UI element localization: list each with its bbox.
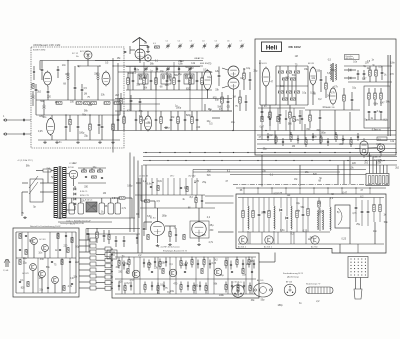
wire riser to tone box xyxy=(262,155,350,187)
svg-text:B 30 C5: B 30 C5 xyxy=(80,191,88,193)
wire supply bus xyxy=(113,130,396,132)
capacitor C185 xyxy=(231,271,233,272)
capacitor C26 xyxy=(130,95,133,111)
resistor R70 xyxy=(325,76,328,98)
label NF caption xyxy=(158,247,180,249)
capacitor C164 xyxy=(151,282,153,291)
svg-text:6,8n: 6,8n xyxy=(280,230,285,232)
capacitor C187 xyxy=(251,271,253,272)
svg-text:25µ: 25µ xyxy=(210,225,215,227)
resistor R2 xyxy=(76,102,82,105)
capacitor C51 xyxy=(249,72,252,90)
resistor R163 xyxy=(144,282,146,293)
svg-text:0,47: 0,47 xyxy=(260,127,265,129)
diode D91 xyxy=(286,198,288,233)
resistor R150 xyxy=(191,257,193,268)
antenna input terminals xyxy=(3,115,31,135)
capacitor C123 xyxy=(19,281,21,282)
resistor R93 xyxy=(296,198,298,233)
label Ratiofilter framed xyxy=(345,55,360,61)
svg-text:C7: C7 xyxy=(240,41,242,43)
resistor R62 xyxy=(294,71,299,73)
wire NF rails xyxy=(135,183,215,208)
wire socket leads xyxy=(370,153,388,174)
tube V12 EF89 xyxy=(308,63,317,105)
resistor R152 xyxy=(203,257,205,268)
capacitor C71 xyxy=(180,187,182,188)
resistor R140 xyxy=(118,258,120,269)
svg-text:AC 760: AC 760 xyxy=(311,246,317,249)
ground xyxy=(55,141,59,144)
svg-text:0,25: 0,25 xyxy=(342,239,347,241)
resistor R94 xyxy=(307,198,309,233)
transistor Q5 xyxy=(52,277,59,284)
capacitor C155 xyxy=(230,261,232,270)
svg-text:10µ: 10µ xyxy=(231,122,236,124)
svg-text:800/875 MHz: 800/875 MHz xyxy=(33,50,45,52)
resistor R8 at antenna xyxy=(153,43,160,48)
svg-text:Fernbedienung B 74: Fernbedienung B 74 xyxy=(283,272,304,275)
value labels xyxy=(262,171,323,183)
resistor R201 xyxy=(275,135,277,145)
svg-text:10µ: 10µ xyxy=(23,258,28,260)
svg-text:0,47: 0,47 xyxy=(343,193,348,195)
AM receiver enclosure box xyxy=(255,39,396,155)
wire strip links xyxy=(79,240,113,288)
junction dots xyxy=(65,60,195,183)
transistor case outline AF drawing xyxy=(231,282,244,298)
resistor R211 xyxy=(350,137,352,147)
resistor R86 xyxy=(169,226,171,242)
electrolytic capacitor can E1 xyxy=(69,198,75,214)
resistor R92 xyxy=(268,198,270,233)
svg-text:C4: C4 xyxy=(202,41,204,43)
remote receiver enclosure box xyxy=(112,250,259,299)
svg-text:180p: 180p xyxy=(79,132,85,134)
svg-text:180p: 180p xyxy=(176,107,182,109)
capacitor C50d xyxy=(245,95,248,111)
wire riser xyxy=(137,161,139,254)
resistor R205 xyxy=(305,137,307,147)
ground xyxy=(76,141,80,144)
resistor R144 xyxy=(148,260,150,271)
wire supply bus xyxy=(257,148,396,150)
svg-text:• F (2,2/4b 2TC): • F (2,2/4b 2TC) xyxy=(17,160,33,162)
capacitor C30 xyxy=(117,111,120,131)
IF transformer box F3 xyxy=(184,74,194,84)
resistor R20 xyxy=(201,72,204,90)
svg-text:AM Filter II: AM Filter II xyxy=(346,57,355,60)
wire riser xyxy=(129,153,131,233)
wire feed from right xyxy=(193,170,366,179)
resistor R99 xyxy=(373,198,375,223)
svg-text:AC 301 k: AC 301 k xyxy=(264,246,272,249)
rear connector socket block xyxy=(366,174,389,186)
value labels xyxy=(259,129,395,150)
svg-text:6,8n: 6,8n xyxy=(158,181,163,183)
mains switch S1 xyxy=(22,176,48,202)
diode D4 xyxy=(74,193,76,195)
resistor R142 xyxy=(128,257,130,268)
capacitor C23 xyxy=(150,72,153,90)
trimmer capacitor CT7 xyxy=(240,41,245,49)
value labels xyxy=(127,97,235,129)
svg-text:C5: C5 xyxy=(215,41,217,43)
capacitor C3 xyxy=(65,115,68,140)
capacitor C131 xyxy=(115,236,118,247)
wire xyxy=(115,99,232,105)
resistor R172 xyxy=(225,282,227,293)
capacitor C8 at antenna xyxy=(140,43,150,53)
resistor R25 xyxy=(120,93,122,111)
capacitor C145 xyxy=(154,258,156,267)
svg-text:10µ: 10µ xyxy=(160,285,165,287)
svg-text:10µ: 10µ xyxy=(207,121,212,123)
capacitor C135 xyxy=(103,230,106,242)
wire vertical feed xyxy=(113,58,118,153)
capacitor C66 xyxy=(261,105,264,120)
capacitor C218 xyxy=(327,138,329,146)
capacitor C153 xyxy=(209,260,211,269)
capacitor C122 xyxy=(69,261,71,262)
wire AM grid rails xyxy=(276,66,308,105)
wire box F to tone box link xyxy=(259,253,275,263)
wire lower links xyxy=(205,196,234,232)
resistor R77 xyxy=(269,105,272,126)
resistor R3 xyxy=(84,102,90,105)
resistor R75 xyxy=(380,88,383,106)
capacitor C4 xyxy=(77,115,80,140)
resistor R82 xyxy=(186,186,188,191)
resistor R35 xyxy=(160,111,163,131)
resistor R87 xyxy=(183,234,185,239)
IF transformer box F1 xyxy=(138,74,148,84)
value labels xyxy=(147,215,214,244)
chassis boundary dash-dot line xyxy=(233,184,388,186)
resistor R1 xyxy=(56,102,62,105)
capacitor C29 xyxy=(196,72,199,90)
wire xyxy=(355,147,377,150)
wire box F verticals xyxy=(122,257,252,294)
svg-text:0,25: 0,25 xyxy=(184,187,189,189)
wire xyxy=(131,198,133,218)
diode D5 xyxy=(74,198,76,200)
tube V11 ECH81 xyxy=(259,63,270,105)
transistor Q1 GC301 xyxy=(31,238,46,245)
svg-text:6,8n: 6,8n xyxy=(167,77,172,79)
svg-text:10µ: 10µ xyxy=(93,167,98,169)
remote microphone grille xyxy=(348,257,368,278)
svg-text:DR J: DR J xyxy=(170,176,174,178)
resistor R146 xyxy=(159,259,161,270)
capacitor C72 xyxy=(201,195,203,208)
capacitor C87 xyxy=(367,200,370,226)
wire top small row rail xyxy=(126,66,200,68)
wire IF row1 top rail xyxy=(118,71,212,73)
label above xyxy=(60,222,84,225)
resistor R50 xyxy=(221,92,224,111)
capacitor C151 xyxy=(197,260,199,269)
svg-text:1M: 1M xyxy=(294,179,297,181)
capacitor C82 xyxy=(302,198,305,233)
resistor R80 xyxy=(114,197,132,199)
svg-text:1M: 1M xyxy=(84,93,87,95)
svg-text:0,25: 0,25 xyxy=(278,193,283,195)
wire IF row1 bottom rail xyxy=(126,89,212,91)
value labels xyxy=(251,300,320,307)
transistor Q91 xyxy=(264,236,273,249)
resistor R154 xyxy=(225,258,227,269)
resistor R148 xyxy=(180,258,182,269)
resistor R98 xyxy=(318,198,320,211)
trimmer capacitor CT1 xyxy=(166,41,171,49)
label under indicators xyxy=(374,156,383,162)
svg-text:10µ: 10µ xyxy=(262,171,267,173)
svg-text:Skalenlampe 7 V: Skalenlampe 7 V xyxy=(306,284,321,286)
trimmer CT13 xyxy=(166,67,170,72)
wire xyxy=(260,60,360,110)
capacitor C149 xyxy=(185,261,187,270)
small framed label xyxy=(377,137,387,141)
resistor R184 xyxy=(201,268,203,273)
capacitor C32 xyxy=(135,111,138,131)
diode D6 xyxy=(74,203,76,205)
capacitor C115 xyxy=(19,249,21,250)
capacitor C73 xyxy=(143,222,145,236)
value labels xyxy=(240,190,389,241)
value labels xyxy=(141,106,212,129)
capacitor C60 xyxy=(320,70,323,92)
capacitor C162 xyxy=(130,282,132,291)
svg-text:6,8n: 6,8n xyxy=(372,129,377,131)
capacitor C166 xyxy=(163,282,165,291)
tone control enclosure box xyxy=(236,194,386,253)
capacitor C168 xyxy=(187,282,189,291)
svg-text:180p: 180p xyxy=(234,294,240,296)
svg-text:EABC 80: EABC 80 xyxy=(374,156,381,159)
antenna ANT1 xyxy=(133,38,147,61)
svg-text:6,8n: 6,8n xyxy=(327,73,332,75)
wire xyxy=(66,186,75,210)
tube V15 indicator circle xyxy=(377,144,385,156)
trimmer CT15 xyxy=(188,67,192,72)
capacitor C63 xyxy=(381,66,384,80)
capacitor C34 xyxy=(155,111,158,131)
capacitor C2b xyxy=(81,84,84,100)
resistor R72 xyxy=(375,66,378,82)
resistor R85 xyxy=(147,234,149,239)
capacitor C200 xyxy=(41,61,44,81)
capacitor C68 xyxy=(299,110,302,124)
capacitor C120 xyxy=(51,261,53,262)
ground xyxy=(43,141,47,144)
capacitor C173 xyxy=(231,282,233,291)
svg-text:6,8n: 6,8n xyxy=(147,183,152,185)
svg-text:180p: 180p xyxy=(321,133,327,135)
wire xyxy=(36,100,120,115)
wire main bus xyxy=(143,156,397,158)
resistor R182 xyxy=(162,268,164,273)
resistor R176 xyxy=(249,283,251,294)
capacitor C85 xyxy=(355,198,358,223)
svg-text:25µ: 25µ xyxy=(202,182,207,184)
wire xyxy=(340,222,375,253)
output transformer TR2 xyxy=(318,208,324,231)
capacitor C81 xyxy=(263,198,266,233)
capacitor C2 xyxy=(74,66,77,100)
capacitor C141 xyxy=(123,261,125,270)
AM IF filter transformer xyxy=(331,63,337,82)
capacitor C1 xyxy=(57,66,60,78)
tube V16 EZ80 rectifier xyxy=(66,163,78,186)
resistor R186 xyxy=(242,268,244,273)
svg-text:B 16 C5: B 16 C5 xyxy=(85,200,93,202)
svg-text:0,25: 0,25 xyxy=(212,263,217,265)
transistor Q3 GC678 xyxy=(22,264,36,275)
resistor R37 xyxy=(177,111,180,131)
fuse F1 xyxy=(36,169,54,172)
resistor R4 xyxy=(91,102,97,105)
wire supply bus xyxy=(257,134,396,136)
capacitor C175 xyxy=(243,282,245,291)
svg-text:1. und NF-Teil (Chassis): 1. und NF-Teil (Chassis) xyxy=(158,247,180,249)
wire xyxy=(113,65,203,67)
capacitor C14 xyxy=(178,67,180,73)
svg-text:10µ: 10µ xyxy=(160,71,165,73)
svg-text:0,25: 0,25 xyxy=(261,212,266,214)
capacitor C36 xyxy=(170,111,173,131)
transistor Q8 xyxy=(214,268,222,276)
capacitor C113 xyxy=(65,235,67,236)
resistor R207 xyxy=(320,135,322,145)
svg-text:Heli: Heli xyxy=(266,44,278,51)
svg-text:10µ: 10µ xyxy=(302,92,307,94)
wire xyxy=(16,232,76,293)
svg-text:100k: 100k xyxy=(376,163,382,165)
capacitor C220 xyxy=(342,136,344,144)
svg-text:1M: 1M xyxy=(190,68,193,70)
coil L3 xyxy=(43,100,45,115)
transistor case outline drawing small xyxy=(284,281,296,296)
svg-text:1M: 1M xyxy=(103,193,106,195)
tube V9 ECC85 section (lower circle) xyxy=(228,78,239,89)
wire xyxy=(262,110,350,144)
resistor R203 xyxy=(290,132,292,142)
svg-text:25µ: 25µ xyxy=(23,263,28,265)
resistor R5 xyxy=(104,102,110,105)
electrolytic capacitor can E0 xyxy=(61,198,67,214)
capacitor C65 xyxy=(351,92,354,110)
wire xyxy=(344,66,392,82)
resistor R174 xyxy=(237,283,239,294)
svg-text:1M: 1M xyxy=(233,97,236,99)
resistor R90 xyxy=(242,198,244,233)
power transformer TR1 xyxy=(54,166,66,219)
tube V5 mixer (circle) xyxy=(135,49,145,59)
Heli logo xyxy=(262,42,282,52)
tube V14 EM84 (tuning indicator pill) xyxy=(360,138,368,158)
svg-text:10µ: 10µ xyxy=(296,203,301,205)
tube V1 (UKW oscillator, circle) xyxy=(80,51,92,59)
wire xyxy=(130,46,140,63)
ground xyxy=(168,243,172,246)
svg-text:CAP 30: CAP 30 xyxy=(196,57,204,60)
wire xyxy=(40,61,120,71)
capacitor C5 xyxy=(101,115,104,140)
svg-text:RK 1002: RK 1002 xyxy=(289,45,301,49)
diode D1 xyxy=(344,69,356,72)
svg-text:1M: 1M xyxy=(171,117,174,119)
resistor R12 xyxy=(143,72,146,90)
resistor R83 xyxy=(195,195,197,208)
svg-text:U52 U52: U52 U52 xyxy=(188,176,195,178)
wire LW1 line xyxy=(95,58,203,61)
wire xyxy=(280,66,296,105)
resistor R209 xyxy=(335,132,337,142)
inter-chassis connector strip (right column) xyxy=(105,247,111,290)
capacitor C80 xyxy=(258,198,261,233)
resistor R39 xyxy=(191,111,194,131)
ratio detector sub-box xyxy=(364,86,390,128)
trimmer capacitor CT4 xyxy=(202,41,207,49)
diode D3 xyxy=(74,188,76,190)
wire NF-to-remote rails xyxy=(86,229,140,253)
resistor R119 xyxy=(19,259,21,264)
resistor R31 xyxy=(123,111,126,131)
svg-text:6,8n: 6,8n xyxy=(147,216,152,218)
remote power supply enclosure box xyxy=(13,225,79,297)
tube V3 (triode, right) xyxy=(102,71,110,87)
wire xyxy=(56,198,135,222)
resistor R14 xyxy=(155,72,158,90)
transistor Q7 xyxy=(169,269,177,277)
resistor R74 xyxy=(374,88,377,106)
svg-text:0,47: 0,47 xyxy=(70,278,75,280)
resistor R68 xyxy=(282,98,287,100)
transistor Q6 xyxy=(132,270,140,278)
wire riser xyxy=(133,157,135,233)
capacitor C210 xyxy=(267,133,269,141)
wire socket feed line xyxy=(230,174,366,176)
resistor R18 xyxy=(189,72,192,90)
wire pre-box rail xyxy=(236,187,386,194)
resistor R130 xyxy=(96,228,99,243)
tube V2 (triode, left) xyxy=(44,71,52,87)
capacitor C117 xyxy=(59,249,61,250)
electrolytic capacitor can E4 xyxy=(108,198,114,214)
input sub-box xyxy=(107,250,117,259)
capacitor C5c xyxy=(98,115,101,134)
capacitor C10 xyxy=(134,67,136,73)
capacitor C74 xyxy=(175,228,177,242)
resistor R112 xyxy=(57,233,59,238)
svg-text:25µ: 25µ xyxy=(178,74,183,76)
wire supply bus xyxy=(257,143,396,145)
svg-text:100k: 100k xyxy=(219,295,225,297)
tube V10 (row2 triode) xyxy=(144,111,151,132)
trimmer capacitor CT3 xyxy=(190,41,195,49)
power transistor case outline drawing xyxy=(254,279,273,297)
label EM84 xyxy=(376,130,381,132)
resistor R63 xyxy=(282,78,287,80)
capacitor C69 xyxy=(319,110,322,126)
capacitor C38 xyxy=(184,111,187,131)
svg-text:Empfänger-Baustein B 74: Empfänger-Baustein B 74 xyxy=(163,250,188,253)
capacitor C67 xyxy=(279,105,282,124)
svg-text:AF 126: AF 126 xyxy=(286,281,292,284)
wire main bus xyxy=(143,164,397,166)
value labels xyxy=(207,170,231,182)
